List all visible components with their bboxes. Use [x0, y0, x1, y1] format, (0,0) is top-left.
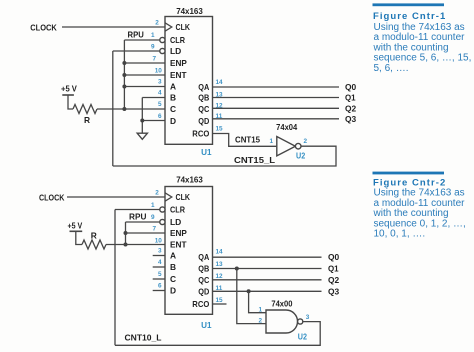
- bottom wire +5V down to resistor: [76, 231, 82, 244]
- svg-text:Q2: Q2: [345, 103, 357, 113]
- svg-text:3: 3: [158, 79, 162, 86]
- svg-text:QA: QA: [198, 252, 209, 262]
- svg-text:Q3: Q3: [345, 114, 357, 124]
- svg-text:13: 13: [216, 261, 224, 268]
- svg-text:U1: U1: [201, 147, 212, 157]
- bottom stub wire RCO: [213, 303, 227, 305]
- svg-text:ENP: ENP: [170, 228, 187, 238]
- svg-text:A: A: [170, 82, 176, 92]
- svg-text:10: 10: [155, 237, 163, 244]
- wire feedback vertical left: [112, 51, 114, 166]
- bottom wire QA output: [213, 256, 322, 258]
- bottom U1 clock chevron pin CLK: [165, 193, 172, 201]
- svg-text:RPU: RPU: [129, 211, 146, 221]
- svg-text:CLR: CLR: [170, 205, 185, 215]
- junction dot bus-ENT: [122, 73, 126, 77]
- svg-text:Figure Cntr-1: Figure Cntr-1: [373, 11, 446, 22]
- bottom wire ENT from resistor: [106, 244, 165, 246]
- svg-text:U2: U2: [296, 151, 305, 161]
- svg-text:1: 1: [258, 307, 262, 314]
- svg-text:U2: U2: [298, 331, 307, 341]
- bottom wire QD output: [213, 290, 322, 292]
- bottom U1 LD inversion bubble: [160, 219, 165, 224]
- bottom wire CLOCK to CLK: [67, 196, 165, 198]
- wire QC output: [213, 107, 340, 109]
- svg-text:6: 6: [158, 113, 162, 120]
- svg-text:QB: QB: [198, 93, 209, 103]
- svg-text:14: 14: [216, 79, 224, 86]
- bottom U1 CLR inversion bubble: [160, 207, 165, 212]
- junction dot QD tap: [247, 289, 251, 293]
- svg-text:CLOCK: CLOCK: [30, 23, 57, 33]
- bottom wire QB output: [213, 268, 322, 270]
- svg-text:Q1: Q1: [328, 264, 339, 274]
- svg-text:9: 9: [151, 214, 155, 221]
- wire B input to ground: [142, 97, 165, 99]
- svg-text:with the counting: with the counting: [373, 42, 449, 53]
- svg-text:ENT: ENT: [170, 70, 187, 80]
- IC U1 bottom counter 74x163 body: [165, 175, 213, 315]
- figure Cntr-2 caption rule: [373, 172, 445, 175]
- junction dot bus-ENP: [122, 61, 126, 65]
- svg-text:LD: LD: [170, 46, 181, 56]
- svg-text:CNT10_L: CNT10_L: [125, 333, 162, 343]
- svg-text:Q3: Q3: [328, 286, 340, 296]
- svg-text:D: D: [170, 286, 176, 296]
- svg-text:B: B: [170, 262, 176, 272]
- bottom wire CLR pin from feedback: [115, 209, 160, 211]
- svg-text:2: 2: [155, 20, 159, 27]
- wire C input from resistor: [97, 108, 165, 110]
- svg-text:QD: QD: [198, 116, 209, 126]
- svg-text:9: 9: [151, 44, 155, 51]
- svg-text:1: 1: [151, 32, 155, 39]
- svg-text:QB: QB: [198, 264, 209, 274]
- svg-text:Q0: Q0: [345, 82, 357, 92]
- svg-text:ENP: ENP: [170, 58, 187, 68]
- svg-text:5, 6, ….: 5, 6, ….: [374, 63, 409, 74]
- wire NAND output feedback: [115, 322, 320, 346]
- figure Cntr-1 caption rule: [373, 3, 445, 6]
- svg-text:C: C: [170, 274, 176, 284]
- bottom junction dot bus-ENP: [124, 231, 128, 235]
- wire LD pin from feedback: [113, 50, 160, 52]
- bottom wire feedback vertical left: [114, 210, 116, 346]
- wire D input to ground: [142, 120, 165, 122]
- svg-text:CLK: CLK: [176, 22, 191, 32]
- svg-text:3: 3: [158, 248, 162, 255]
- svg-text:10: 10: [155, 67, 163, 74]
- svg-text:+5 V: +5 V: [68, 221, 83, 231]
- svg-text:+5 V: +5 V: [61, 84, 77, 94]
- svg-text:2: 2: [304, 138, 308, 145]
- bottom resistor R (pull-up) zigzag: [82, 240, 106, 249]
- svg-text:15: 15: [216, 297, 224, 304]
- svg-text:7: 7: [152, 55, 156, 62]
- svg-text:C: C: [170, 104, 176, 114]
- bottom stub wire C: [153, 278, 165, 280]
- U1 LD inversion bubble: [160, 48, 165, 53]
- svg-text:5: 5: [158, 271, 162, 278]
- svg-text:QC: QC: [198, 275, 209, 285]
- NAND U2 output bubble: [298, 319, 303, 324]
- wire QB tap to NAND input 2: [237, 269, 266, 324]
- junction dot D-ground: [140, 119, 144, 123]
- svg-text:1: 1: [269, 138, 273, 145]
- bottom stub wire D: [153, 290, 165, 292]
- bottom wire ENP: [126, 232, 166, 234]
- U1 CLR inversion bubble: [160, 37, 165, 42]
- bottom power +5V supply bar: [70, 230, 83, 232]
- svg-text:QC: QC: [198, 104, 209, 114]
- wire +5V down to resistor: [68, 95, 73, 109]
- svg-text:CLR: CLR: [170, 35, 185, 45]
- svg-text:A: A: [170, 251, 176, 261]
- svg-text:RPU: RPU: [128, 30, 144, 40]
- svg-text:4: 4: [158, 90, 162, 97]
- wire RCO to inverter: [213, 134, 277, 147]
- svg-text:4: 4: [158, 259, 162, 266]
- svg-text:LD: LD: [170, 217, 181, 227]
- wire inverter output feedback: [113, 146, 336, 166]
- wire QD tap to NAND input 1: [249, 291, 266, 312]
- resistor R (pull-up) zigzag: [73, 105, 97, 114]
- power +5V supply bar: [62, 94, 74, 96]
- junction dot bus-C: [122, 107, 126, 111]
- svg-text:2: 2: [258, 318, 262, 325]
- wire QB output: [213, 97, 340, 99]
- bottom stub wire A: [153, 255, 165, 257]
- bottom stub wire B: [153, 266, 165, 268]
- svg-text:CNT15: CNT15: [235, 134, 260, 144]
- wire CLR pin to pull-up bus: [124, 39, 160, 41]
- svg-text:7: 7: [152, 225, 156, 232]
- svg-text:3: 3: [306, 314, 310, 321]
- svg-text:74x04: 74x04: [276, 122, 297, 132]
- svg-text:R: R: [91, 230, 97, 240]
- svg-text:RCO: RCO: [192, 299, 209, 309]
- svg-text:QA: QA: [198, 82, 209, 92]
- junction dot bus-A: [122, 85, 126, 89]
- bottom wire LD pin to pull-up bus: [126, 221, 161, 223]
- svg-text:B: B: [170, 93, 176, 103]
- svg-text:CLOCK: CLOCK: [39, 193, 64, 203]
- svg-text:RCO: RCO: [192, 129, 209, 139]
- wire ground vertical: [141, 98, 143, 134]
- svg-text:1: 1: [151, 202, 155, 209]
- NAND gate U2 body: [266, 310, 298, 333]
- wire CLOCK to CLK: [62, 26, 165, 28]
- IC U1 top counter 74x163 body: [165, 6, 213, 144]
- wire ENP: [124, 62, 165, 64]
- svg-text:CLK: CLK: [176, 192, 191, 202]
- svg-text:12: 12: [216, 273, 224, 280]
- svg-text:ENT: ENT: [170, 240, 187, 250]
- svg-text:74x163: 74x163: [176, 175, 203, 185]
- svg-text:QD: QD: [198, 286, 209, 296]
- svg-text:15: 15: [216, 125, 224, 132]
- svg-text:Q0: Q0: [328, 252, 340, 262]
- svg-text:74x163: 74x163: [176, 6, 203, 16]
- wire QD output: [213, 118, 340, 120]
- wire A input: [124, 86, 165, 88]
- svg-text:Q2: Q2: [328, 275, 340, 285]
- svg-text:Q1: Q1: [345, 93, 356, 103]
- junction dot QB tap: [235, 267, 239, 271]
- figure Cntr-2 caption text: [373, 188, 466, 240]
- wire pull-up vertical bus: [123, 40, 125, 109]
- svg-text:2: 2: [155, 190, 159, 197]
- svg-text:14: 14: [216, 249, 224, 256]
- bottom wire pull-up vertical bus: [125, 222, 127, 245]
- wire QA output: [213, 86, 340, 88]
- inverter U2 triangle: [277, 137, 296, 156]
- svg-text:10, 0, 1, ….: 10, 0, 1, ….: [374, 229, 426, 240]
- svg-text:D: D: [170, 116, 176, 126]
- svg-text:74x00: 74x00: [271, 298, 292, 308]
- wire ENT: [124, 74, 165, 76]
- svg-text:U1: U1: [201, 320, 212, 330]
- svg-text:5: 5: [158, 101, 162, 108]
- figure Cntr-1 caption text: [373, 22, 472, 74]
- svg-text:R: R: [84, 115, 90, 125]
- bottom junction dot bus-ENT: [124, 243, 128, 247]
- inverter U2 output bubble: [295, 143, 301, 149]
- bottom wire QC output: [213, 279, 322, 281]
- svg-text:CNT15_L: CNT15_L: [234, 155, 275, 165]
- ground symbol: [137, 133, 147, 139]
- svg-text:6: 6: [158, 283, 162, 290]
- U1 clock chevron pin CLK: [165, 23, 172, 31]
